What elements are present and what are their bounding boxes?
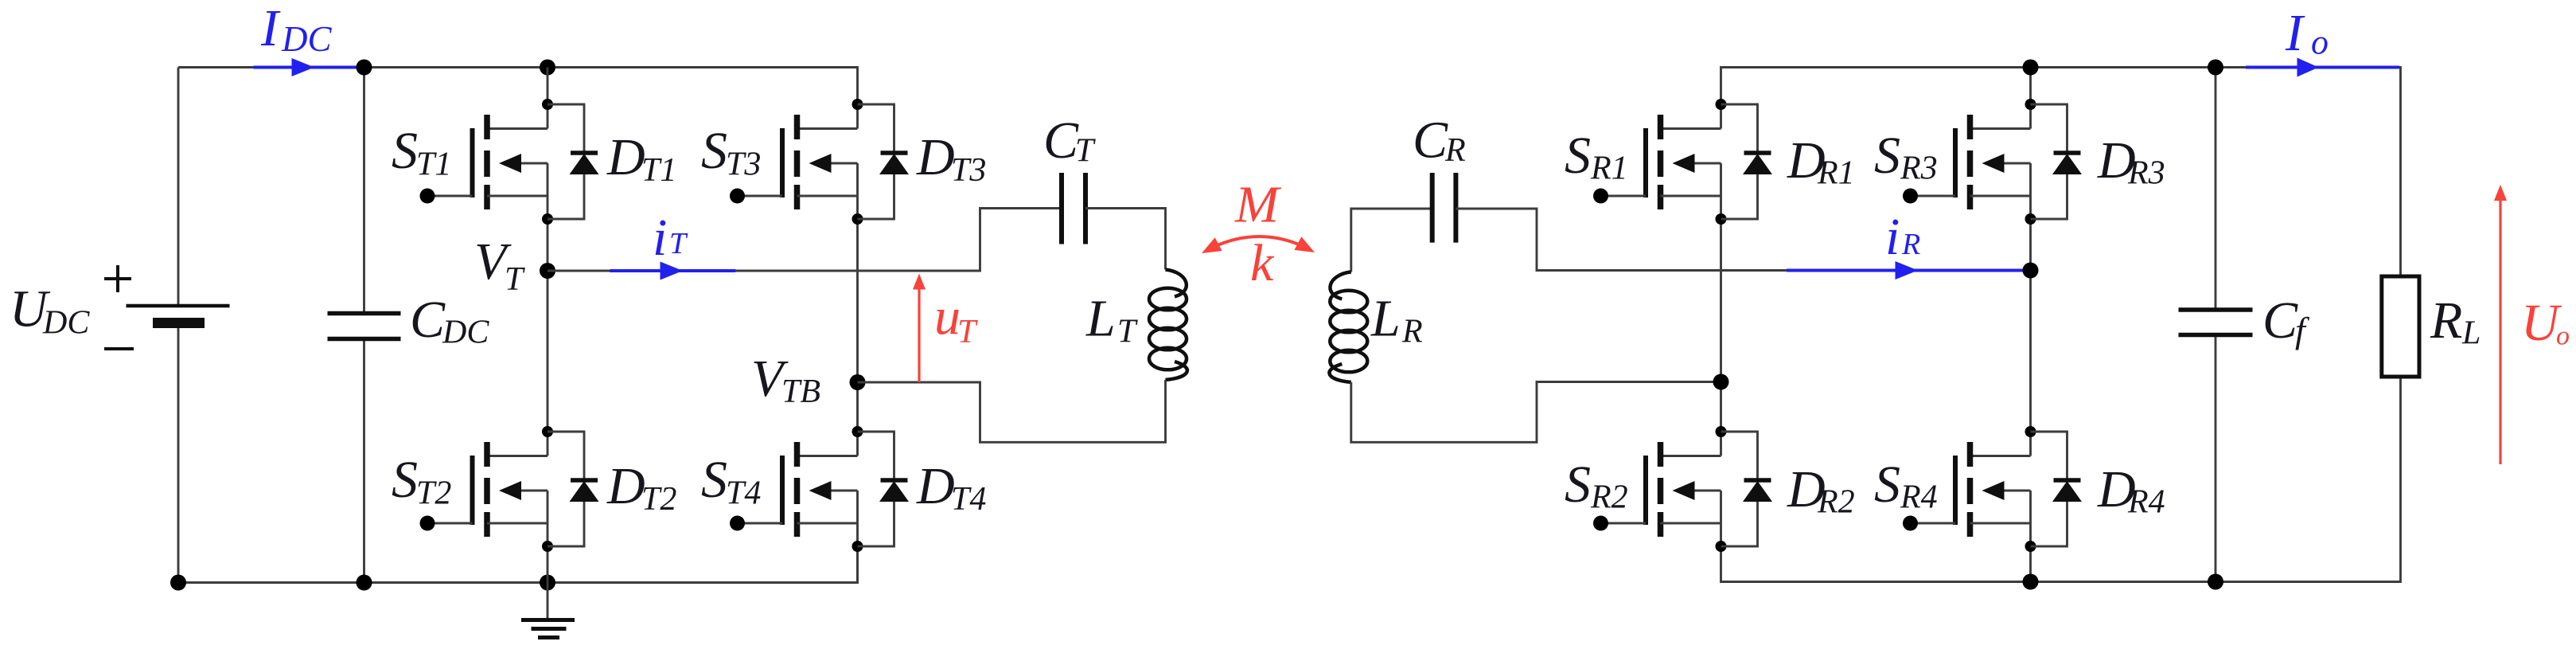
capacitor C_T	[1062, 173, 1085, 244]
body diode of S_T1	[548, 104, 599, 219]
svg-text:R: R	[1444, 132, 1466, 169]
label S_R1	[1565, 127, 1628, 187]
wire: receiver top rail	[1721, 68, 2401, 277]
svg-text:T4: T4	[951, 481, 986, 518]
transistor S_T3	[730, 99, 863, 225]
wire: V_T to resonant loop	[548, 209, 1062, 272]
svg-text:I: I	[260, 0, 281, 57]
label S_T1	[392, 122, 451, 183]
label S_R3	[1874, 127, 1938, 187]
node dot: top rail C_DC	[357, 60, 372, 76]
node dot: bottom rail C_f	[2208, 574, 2223, 590]
body diode of S_T3	[858, 104, 910, 219]
svg-text:D: D	[916, 128, 955, 186]
transistor S_R1	[1593, 99, 1727, 225]
svg-text:T3: T3	[726, 147, 761, 183]
label D_T4	[916, 457, 986, 518]
body diode of S_R4	[2031, 432, 2083, 546]
transistor S_T1	[420, 99, 554, 225]
svg-text:T: T	[957, 314, 978, 350]
svg-text:S: S	[392, 122, 418, 180]
wire: top rail from battery to leg T2	[178, 68, 858, 105]
label D_T1	[606, 128, 676, 189]
svg-text:R3: R3	[1900, 151, 1938, 187]
label D_R2	[1787, 460, 1855, 521]
transistor S_R4	[1903, 426, 2036, 552]
label C_T	[1043, 111, 1096, 170]
node dot: bottom rail leg R3	[2023, 574, 2039, 590]
capacitor C_f branch wires	[2215, 68, 2217, 582]
svg-text:R1: R1	[1817, 155, 1855, 192]
svg-text:L: L	[1370, 290, 1401, 348]
svg-text:R3: R3	[2127, 155, 2165, 192]
body diode of S_R2	[1721, 432, 1773, 546]
transistor S_T2	[420, 426, 554, 552]
svg-text:T3: T3	[951, 152, 986, 189]
svg-text:D: D	[606, 128, 645, 186]
node dot: top rail leg R3	[2023, 60, 2039, 76]
svg-text:M: M	[1234, 176, 1282, 234]
svg-text:R4: R4	[1900, 479, 1938, 516]
wire: C_T to L_T	[1085, 209, 1166, 270]
wire: receiver bottom rail	[1721, 377, 2401, 582]
body diode of S_T2	[548, 432, 599, 546]
label u_T	[934, 287, 978, 350]
current arrow i_R	[1787, 261, 2028, 280]
svg-text:TB: TB	[781, 373, 820, 410]
transistor S_R2	[1593, 426, 1727, 552]
label i_T	[653, 209, 688, 267]
svg-text:S: S	[1565, 127, 1591, 185]
wire: C_R to leg R3 midpoint	[1456, 209, 2030, 271]
label i_R	[1885, 208, 1920, 266]
battery minus sign	[104, 347, 134, 350]
body diode of S_R1	[1721, 104, 1773, 219]
wire: L_T to bottom edge back to V_TB	[858, 380, 1166, 442]
label C_R	[1413, 111, 1466, 170]
svg-text:T2: T2	[416, 475, 451, 512]
capacitor C_DC branch wires	[363, 68, 365, 583]
wire: bottom rail of transmitter	[178, 546, 858, 583]
wire: leg R1 middle vertical	[1720, 219, 1722, 432]
svg-text:S: S	[1874, 456, 1900, 514]
capacitor C_DC	[328, 314, 401, 339]
svg-text:o: o	[2311, 23, 2329, 62]
svg-text:T: T	[505, 261, 525, 298]
label I_DC	[260, 0, 332, 59]
transistor S_R3	[1903, 99, 2036, 225]
label S_R4	[1874, 456, 1938, 516]
label D_T2	[606, 457, 676, 518]
svg-text:D: D	[916, 457, 955, 515]
resistor R_L	[2382, 276, 2419, 377]
svg-text:R: R	[1401, 314, 1423, 350]
ground symbol	[521, 583, 575, 638]
wire: leg T1 verticals	[547, 68, 549, 583]
node V_T	[540, 263, 555, 279]
transistor S_T4	[730, 426, 863, 552]
svg-text:T4: T4	[726, 475, 761, 512]
svg-text:i: i	[1885, 208, 1900, 266]
svg-text:R2: R2	[1590, 479, 1628, 516]
label C_DC	[410, 291, 489, 351]
label V_T	[474, 233, 525, 298]
node dot: top rail leg T1	[540, 60, 555, 76]
capacitor C_f	[2179, 310, 2253, 335]
node dot: leg R1 midpoint	[1713, 374, 1729, 390]
label S_T3	[701, 122, 761, 183]
svg-text:T: T	[1117, 314, 1138, 350]
node dot: leg R3 midpoint	[2023, 263, 2039, 279]
svg-text:o: o	[2556, 322, 2570, 351]
svg-text:L: L	[2461, 315, 2481, 352]
svg-text:S: S	[701, 451, 727, 509]
svg-text:T: T	[1075, 133, 1096, 170]
label U_DC	[10, 280, 90, 342]
svg-text:T: T	[669, 227, 688, 260]
svg-text:D: D	[606, 457, 645, 515]
label k	[1250, 234, 1275, 292]
label L_R	[1370, 290, 1423, 350]
battery plus sign	[104, 265, 131, 292]
svg-text:T1: T1	[641, 152, 676, 189]
wire: leg R3 verticals	[2029, 68, 2032, 582]
svg-text:R2: R2	[1817, 484, 1855, 521]
label M	[1234, 176, 1282, 234]
svg-text:DC: DC	[42, 305, 90, 342]
label S_T2	[392, 451, 451, 512]
capacitor C_R	[1432, 173, 1456, 243]
current arrow I_o	[2246, 58, 2399, 77]
label R_L	[2430, 291, 2481, 352]
body diode of S_R3	[2031, 104, 2083, 219]
label C_f	[2262, 291, 2310, 350]
wire: L_R bottom to leg R1 midpoint	[1351, 382, 1721, 443]
label L_T	[1085, 290, 1138, 350]
svg-text:R: R	[2430, 291, 2462, 350]
node dot: top rail C_f	[2208, 60, 2223, 76]
svg-text:L: L	[1085, 290, 1116, 348]
label D_R4	[2097, 460, 2165, 521]
node dot: bottom rail C_DC	[357, 575, 372, 591]
body diode of S_T4	[858, 432, 910, 546]
voltage arrow u_T	[913, 274, 926, 383]
svg-text:R: R	[1901, 228, 1920, 261]
coupling arrow M k	[1202, 237, 1315, 253]
svg-text:C: C	[2262, 291, 2298, 350]
node dot: bottom rail ground	[540, 575, 555, 591]
svg-text:S: S	[1874, 127, 1900, 185]
svg-text:DC: DC	[281, 19, 332, 59]
current arrow I_DC	[254, 58, 364, 76]
label D_R1	[1787, 131, 1855, 192]
inductor L_R	[1329, 272, 1367, 382]
svg-text:R4: R4	[2127, 484, 2165, 521]
svg-text:S: S	[701, 122, 727, 180]
svg-text:T1: T1	[416, 147, 451, 183]
svg-text:k: k	[1250, 234, 1275, 292]
label D_R3	[2097, 131, 2165, 192]
wire: leg T2 verticals	[856, 219, 859, 583]
node dot: bottom rail battery	[170, 575, 186, 591]
current arrow i_T	[610, 262, 735, 280]
svg-text:T2: T2	[641, 481, 676, 518]
battery U_DC	[127, 306, 230, 323]
svg-text:R1: R1	[1590, 151, 1628, 187]
label D_T3	[916, 128, 986, 189]
wire: left rail battery branch	[177, 68, 180, 583]
label S_R2	[1565, 456, 1628, 516]
node V_TB	[850, 374, 866, 390]
svg-text:S: S	[1565, 456, 1591, 514]
svg-text:C: C	[1043, 111, 1079, 170]
svg-text:DC: DC	[442, 315, 489, 351]
svg-text:S: S	[392, 451, 418, 509]
wire: L_R top to C_R	[1351, 209, 1432, 272]
voltage arrow U_o	[2494, 185, 2507, 464]
inductor L_T	[1149, 270, 1187, 381]
label I_o	[2285, 4, 2329, 62]
svg-text:i: i	[653, 209, 667, 267]
label U_o	[2521, 294, 2570, 352]
label S_T4	[701, 451, 761, 512]
svg-text:C: C	[1413, 111, 1448, 170]
svg-text:I: I	[2285, 4, 2305, 62]
label V_TB	[751, 350, 820, 410]
svg-text:C: C	[410, 291, 446, 349]
